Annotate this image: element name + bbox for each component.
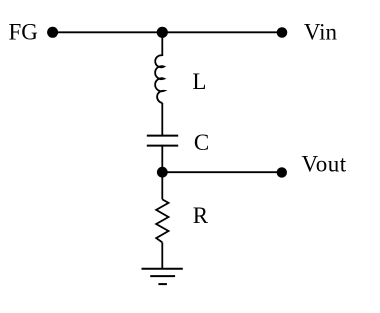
node Vout junction [157,167,168,178]
svg-text:Vout: Vout [302,152,347,177]
node FG terminal [47,27,58,38]
inductor L [155,55,164,103]
svg-text:Vin: Vin [304,20,338,45]
capacitor C [147,136,178,146]
wire top horizontal FG to Vin [53,31,282,33]
resistor R [156,199,168,242]
node Vout terminal [277,167,287,177]
node junction top [157,27,168,38]
svg-text:L: L [192,69,206,94]
svg-text:FG: FG [9,20,38,45]
node Vin terminal [277,27,288,38]
wire junction to inductor top [161,32,163,56]
svg-text:R: R [193,203,209,228]
wire capacitor bottom plate to Vout node [161,145,163,172]
wire inductor bottom to capacitor top plate [161,103,163,135]
wire Vout node to resistor top [161,172,163,199]
wire Vout node to Vout terminal [162,171,281,173]
ground [142,269,183,284]
wire resistor bottom to ground [161,242,163,268]
svg-text:C: C [194,130,209,155]
